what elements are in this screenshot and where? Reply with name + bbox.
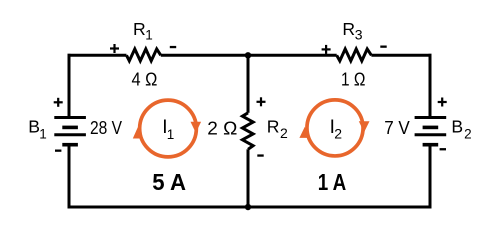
wire: left vertical, top rail to B1 — [68, 54, 71, 118]
svg-text:3: 3 — [355, 27, 363, 43]
battery B2 (7 V) — [415, 118, 447, 145]
junction node: top (R1/R3/R2) — [245, 52, 251, 58]
polarity + of B2 — [438, 98, 447, 107]
value label 28 V of B1 — [90, 117, 123, 138]
wire: left vertical, B1 to bottom rail — [68, 145, 71, 209]
svg-text:1 A: 1 A — [318, 169, 347, 195]
label R1 designator — [133, 19, 153, 42]
polarity + of B1 — [54, 98, 63, 107]
svg-text:5 A: 5 A — [152, 169, 186, 195]
wire: bottom rail — [68, 206, 432, 209]
polarity - of B2 — [440, 148, 446, 150]
resistor R3 (1 ohm) zigzag — [337, 49, 372, 61]
value label 7 V of B2 — [384, 117, 410, 138]
polarity - of R2 — [257, 154, 263, 156]
mesh current loop I1 (orange circle with clockwise arrows) — [133, 100, 201, 157]
value label 4 ohm of R1 — [132, 68, 158, 89]
svg-text:1: 1 — [167, 127, 175, 142]
polarity - of R1 — [170, 46, 176, 48]
svg-text:2 Ω: 2 Ω — [207, 117, 237, 138]
value label 5 A of I1 — [152, 169, 186, 195]
svg-text:R: R — [133, 19, 146, 39]
svg-text:R: R — [267, 117, 280, 137]
svg-text:1: 1 — [39, 126, 47, 141]
wire: middle vertical, R2 to bottom node — [247, 149, 250, 207]
polarity + of R2 — [257, 97, 266, 106]
svg-text:1: 1 — [145, 28, 153, 43]
junction node: bottom (B1/R2/B2) — [245, 204, 251, 210]
svg-text:7 V: 7 V — [384, 117, 410, 138]
polarity + of R3 — [322, 45, 331, 54]
value label 1 A of I2 — [318, 169, 347, 195]
label R3 designator — [342, 19, 362, 42]
battery B1 (28 V) — [54, 118, 86, 145]
label I2 — [330, 117, 343, 141]
value label 1 ohm of R3 — [341, 68, 366, 89]
polarity + of R1 — [110, 44, 119, 53]
resistor R1 (4 ohm) zigzag — [127, 49, 161, 61]
wire: middle vertical, top node to R2 — [247, 55, 250, 113]
wire: top rail, R1 to R3 (through top node) — [161, 54, 337, 57]
mesh current loop I2 (orange circle with clockwise arrows) — [299, 100, 369, 156]
wire: top rail, B1 to R1 — [68, 54, 127, 57]
label B1 designator — [28, 117, 47, 142]
svg-text:B: B — [451, 117, 463, 137]
svg-text:1 Ω: 1 Ω — [341, 68, 366, 89]
value label 2 ohm of R2 — [207, 117, 237, 138]
svg-text:B: B — [28, 117, 40, 137]
label B2 designator — [451, 117, 471, 142]
svg-text:2: 2 — [464, 126, 472, 141]
svg-text:4 Ω: 4 Ω — [132, 68, 158, 89]
svg-text:R: R — [342, 19, 355, 39]
label R2 designator — [267, 117, 288, 141]
svg-text:28 V: 28 V — [90, 117, 123, 138]
svg-text:2: 2 — [334, 125, 342, 141]
polarity - of R3 — [380, 46, 386, 48]
wire: top rail, R3 to B2 — [371, 54, 431, 57]
wire: right vertical, B2 to bottom rail — [429, 145, 432, 209]
svg-text:2: 2 — [280, 125, 288, 141]
polarity - of B1 — [55, 150, 61, 152]
label I1 — [162, 117, 174, 142]
resistor R2 (2 ohm) vertical zigzag — [242, 113, 253, 150]
wire: right vertical, top rail to B2 — [429, 54, 432, 118]
